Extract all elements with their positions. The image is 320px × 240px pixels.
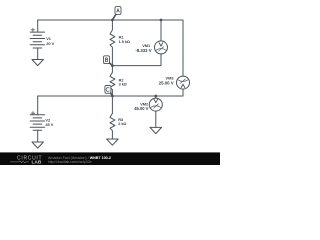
ground V2: [32, 142, 43, 148]
wire VM2 bottom stub: [155, 111, 157, 127]
svg-text:R3: R3: [118, 117, 124, 122]
wire C net horizontal: [38, 95, 183, 97]
wire V1 bottom stub: [37, 48, 39, 60]
junction node B: [111, 64, 114, 67]
node A badge: [113, 7, 121, 20]
svg-text:LAB: LAB: [32, 160, 42, 166]
svg-text:2 kΩ: 2 kΩ: [118, 122, 126, 126]
ground VM2: [150, 127, 162, 133]
svg-text:http://circuitlab.com/c/w4p32b: http://circuitlab.com/c/w4p32b: [48, 160, 92, 164]
wire top A net: [38, 19, 183, 21]
resistor R3: [110, 96, 115, 139]
svg-text:25.00 V: 25.00 V: [159, 80, 174, 85]
wire VM2 top stub: [155, 96, 157, 98]
node C badge: [105, 86, 112, 96]
wire V1 top stub: [37, 20, 39, 32]
wire V2 bottom stub: [37, 130, 39, 142]
svg-text:20 V: 20 V: [46, 41, 54, 46]
wire right side A net down: [182, 20, 184, 76]
svg-text:-8.333 V: -8.333 V: [135, 48, 151, 53]
svg-text:3 kΩ: 3 kΩ: [119, 82, 127, 86]
junction VM2 tap: [154, 95, 157, 98]
junction VM1 tap: [160, 19, 163, 22]
wire node B to VM1: [112, 54, 161, 66]
ground V1: [32, 60, 43, 66]
wire VM3 bottom to C net: [182, 89, 184, 96]
voltmeter VM2: [149, 98, 162, 111]
wire V2 top stub: [37, 96, 39, 115]
footer bar: [0, 152, 220, 165]
voltmeter VM1: [155, 20, 168, 54]
junction node C: [111, 95, 114, 98]
svg-text:1.5 kΩ: 1.5 kΩ: [119, 40, 130, 44]
voltmeter VM3: [177, 76, 190, 89]
svg-text:VM1: VM1: [142, 43, 151, 48]
footer logo wire: [10, 161, 29, 163]
svg-text:45 V: 45 V: [45, 122, 53, 127]
resistor R1: [110, 20, 115, 66]
node B badge: [104, 56, 113, 66]
ground R3: [107, 139, 119, 145]
battery V1: [30, 28, 44, 48]
resistor R2: [110, 66, 115, 96]
battery V2: [30, 112, 44, 131]
junction node A: [111, 19, 114, 22]
svg-text:45.00 V: 45.00 V: [134, 106, 148, 111]
